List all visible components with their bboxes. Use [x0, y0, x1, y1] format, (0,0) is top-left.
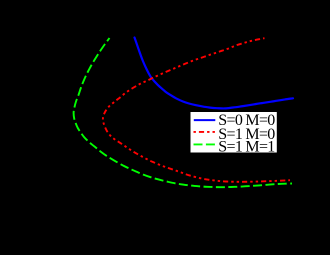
- legend box: [191, 112, 277, 153]
- svg-text:S=1 M=1: S=1 M=1: [218, 138, 275, 155]
- curve S=0 M=0 (blue solid): [135, 38, 294, 109]
- legend sample S=1 M=1 (green dashed): [194, 143, 216, 145]
- legend sample S=1 M=0 (red dash-dot-dot): [194, 131, 216, 133]
- legend sample S=0 M=0 (blue solid): [194, 119, 216, 121]
- curve S=1 M=1 (green dashed): [74, 38, 292, 187]
- curve S=1 M=0 (red dash-dot-dot): [103, 38, 290, 182]
